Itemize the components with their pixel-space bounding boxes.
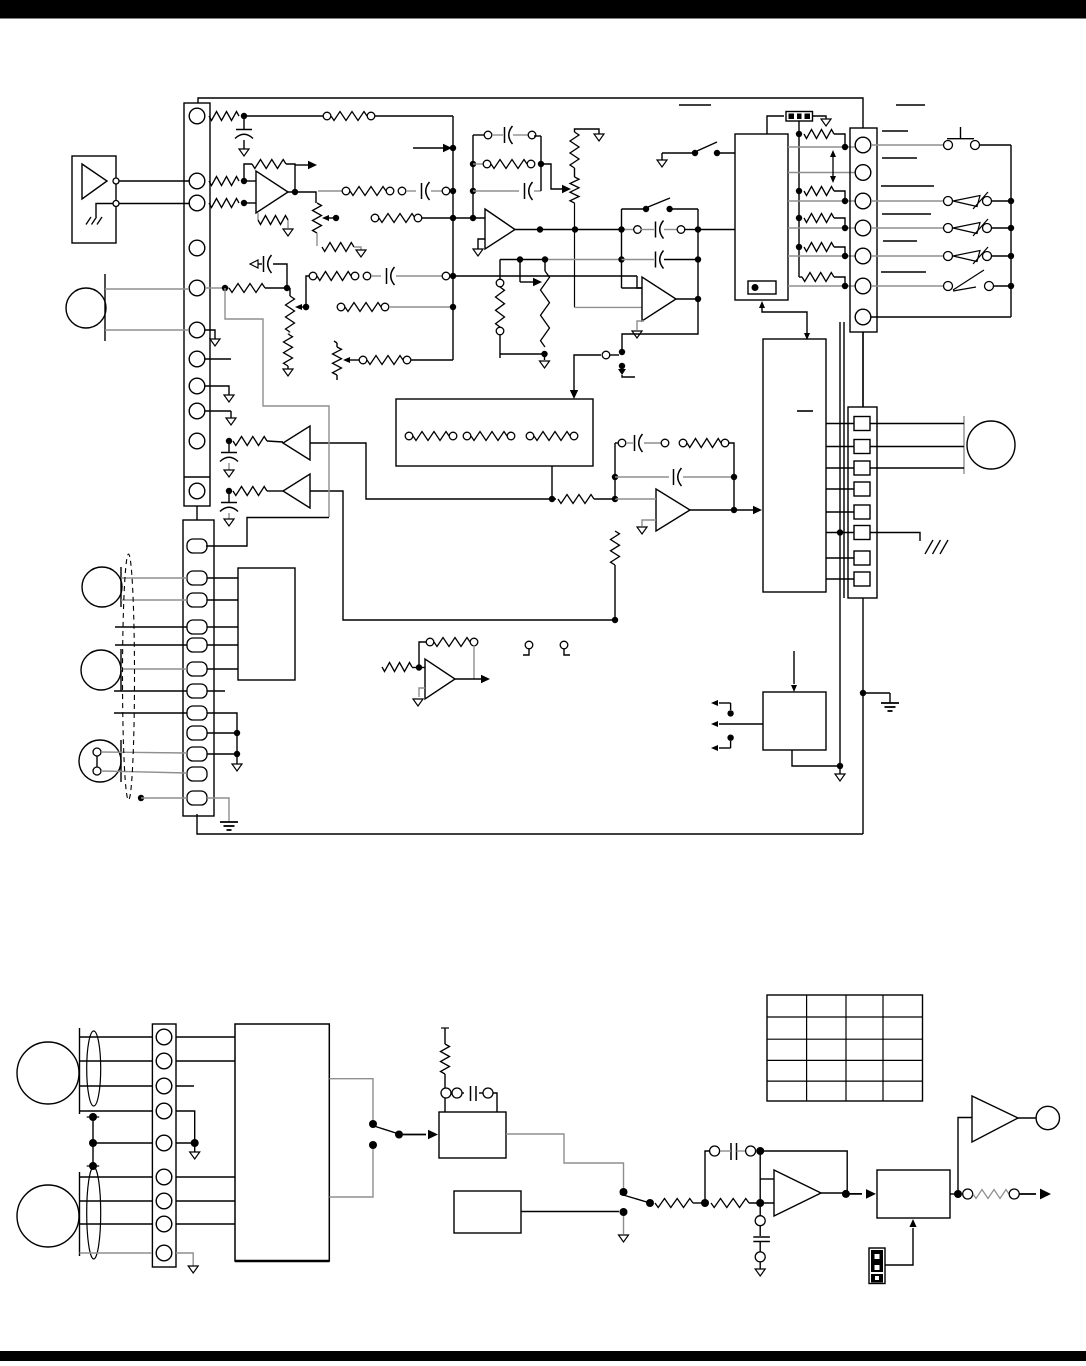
wire U2 out [690,509,734,511]
wire J3 pin1 [871,144,944,146]
wire row276 right [453,275,637,277]
headphone out [1036,1106,1059,1129]
wire U3 to router box [698,229,735,231]
line-driver triangle [82,164,107,199]
earth ground right [881,703,899,711]
push switch S1 [944,127,980,150]
node [756,1199,764,1207]
node sw b [666,206,672,212]
capacitor C5 [505,126,513,144]
wire schematic border right lower [862,598,864,834]
wire J2 pin754 [207,753,237,755]
switch lever [697,142,717,151]
wire [493,1093,497,1112]
connector J5 body [152,1024,176,1267]
node [89,1139,97,1147]
wire J1 pin6 stub [205,330,215,339]
terminal [398,187,406,195]
terminal [403,356,411,364]
line-driver box [72,156,116,243]
ladder rail [798,121,800,277]
wire U8 to J4 [826,446,854,448]
connector J3 pin 7 [855,309,871,325]
wire row 645 [115,644,187,646]
terminal [426,638,434,646]
line-driver pin hot [113,178,119,184]
resistor R16 [413,432,449,441]
SPK1 face [79,1028,81,1114]
node y229 a [537,226,543,232]
connector J4 pin 1 [854,417,870,431]
level box U14 [877,1170,950,1218]
node [842,198,848,204]
ground below C9 [224,470,234,477]
amplifier box U10 [235,1024,329,1261]
wire [834,247,845,256]
resistor R31 [441,1028,450,1074]
U3 fb rail right [697,209,699,299]
terminal [1009,1189,1019,1199]
terminal [496,279,504,287]
terminal [342,187,350,195]
node [369,1120,377,1128]
wire [799,276,802,278]
connector J5 pin 8 [156,1216,172,1232]
wire to EQ row [318,190,343,192]
wire wiper2 up [306,276,310,307]
wire row F [788,285,855,287]
reference arrow into bus A [413,144,452,152]
buffer U4 [283,426,310,460]
wire row C [788,200,855,202]
connector J2 pin 12 [187,791,207,805]
wire [720,1150,745,1152]
meter arrow [830,150,836,183]
ground VR4 [594,134,604,141]
wire EQ mid row [473,190,519,192]
MIC1 connector face [104,274,106,341]
node [618,226,624,232]
node [731,474,737,480]
potentiometer VR4 bottom [570,177,579,203]
wire VR4 drop [575,203,643,307]
ground J5 shield [188,1266,198,1273]
wire U8 to J4 [826,511,854,513]
connector J2 pin 2 [187,571,207,585]
wire fb down [473,645,475,679]
table row line [767,1059,923,1061]
node B2 [284,285,290,291]
wire J2 to remote box [207,626,238,628]
node [796,215,802,221]
VR1 wiper arrow [322,215,336,221]
resistor R25 [434,638,470,647]
slide switch S3 [944,219,992,236]
node bus A y276 [450,273,456,279]
switch SW6 lever [374,1126,399,1134]
connector J3 pin 1 [855,137,871,153]
shield tick 2 [87,1165,100,1167]
terminal [570,432,578,440]
resistor R9 [322,243,354,252]
wire U3 out down [622,299,698,352]
wire schematic border bottom [197,814,863,834]
router box U7 [735,134,788,300]
capacitor C11 [635,434,643,452]
connector J4 pin 7 [854,551,870,565]
wire [371,275,381,277]
shield link [92,1117,94,1166]
wire [717,152,735,154]
connector J3 pin 2 [855,165,871,181]
node [692,150,698,156]
wire VR2 top [289,288,291,296]
wire jack b [870,446,964,448]
arrow into U14 [909,1219,916,1227]
U13 input link [760,1151,774,1203]
resistor R8 [379,214,415,223]
table row line [767,1080,923,1082]
terminal link b [560,641,570,655]
wire chain to VR3 bottom [500,353,545,355]
wire J1 pin7 stub [205,358,231,360]
terminal [337,303,345,311]
wire J1 pin8 stub [205,386,229,395]
selector box U8 [763,339,826,592]
potentiometer VR2 [286,296,295,332]
wire J4 pin6 chassis [870,533,920,542]
connector J4 body [848,407,877,598]
connector J1 divider [184,476,210,478]
wire [444,1074,446,1112]
wire out to U14 [846,1189,876,1199]
terminal [449,432,457,440]
connector J1 pin 11 [189,483,205,499]
connector J2 body [183,520,214,816]
wire chain bottom [499,335,501,358]
wire VR4 mid [574,168,576,177]
terminal [441,1088,451,1098]
node A1 [241,113,247,119]
wire insert jack [574,355,601,391]
wire A1 to bus [244,115,323,117]
wire earth right [863,693,890,703]
wire U8 to J4 [826,423,854,425]
node [646,1199,654,1207]
ground J5 [190,1143,200,1159]
node [714,150,720,156]
cable ellipse 1 [87,1031,101,1106]
wire MIC2 b [121,599,187,601]
wire [267,441,283,442]
table column line [845,995,847,1101]
wire [641,229,654,231]
wire [431,190,442,192]
terminal [679,439,687,447]
wire schematic border right upper [862,332,864,407]
connector J1 pin 3 [189,195,205,211]
node [1008,225,1014,231]
wire [236,733,238,754]
lever switch S5 [944,270,994,291]
microphone MIC2 [82,567,122,607]
node [226,438,232,444]
node U14 out [954,1190,962,1198]
ground below C1 [239,149,249,156]
bus V2 [843,322,845,598]
supply arrow 2 [711,721,763,727]
node bus A y191 [450,188,456,194]
slide switch S4 [944,247,992,264]
capacitor C8 [656,251,664,269]
terminal [618,439,626,447]
MIC3 face [120,649,122,691]
label dash [882,213,931,215]
wire fb to out [760,1151,847,1194]
node [796,131,802,137]
node [395,1131,403,1139]
wire [534,190,541,192]
wire row A [788,146,855,148]
wire VR4 to ground [575,129,600,134]
wire fb right [729,443,734,510]
wire J5 pin5 [176,1142,195,1144]
fuse icon [786,112,813,122]
wire MIC2 a [121,577,187,579]
wire U4 out [310,443,556,499]
buffer U5 [283,474,310,508]
connector J1 body [184,103,210,506]
wire [684,229,698,231]
microphone MIC3 [81,650,121,690]
wire U3 output [676,298,698,300]
terminal [363,272,371,280]
wire jack a [870,423,964,425]
remote box [238,568,295,680]
U6 fb up [419,642,426,668]
wire J2 pin713 [207,713,237,733]
wire XLR a [101,752,187,753]
node [796,244,802,250]
wire [693,1202,705,1204]
terminal [526,432,534,440]
wire [622,259,655,261]
ground J1 pin6 [210,339,220,346]
ground below U3 [632,331,642,338]
wire EQ corner [534,135,541,137]
speaker SPK2 [17,1185,79,1247]
node bus A y148 [450,145,456,151]
resistor R21 [558,495,594,504]
power box U9 [763,692,826,750]
node y260 b [542,256,548,262]
wire J2 to remote box [207,599,238,601]
resistor R24 [382,663,412,672]
connector J3 pin 5 [855,248,871,264]
connector J2 pin 9 [187,726,207,740]
node [416,664,422,670]
wire U10 out A [329,1079,373,1120]
capacitor C2 [422,182,430,200]
resistor R3 [209,177,239,186]
wire MIC1 hot [105,288,189,290]
terminal [746,1146,756,1156]
terminal [442,272,450,280]
node bus B y164 [470,161,476,167]
connector J1 pin 2 [189,173,205,189]
op-amp U2 [656,489,690,531]
wire [683,476,734,478]
label dash [883,240,917,242]
node [860,690,866,696]
jumper table [767,995,923,1101]
potentiometer VR4 top [570,132,579,168]
wire [834,218,845,228]
capacitor C12 [674,468,682,486]
wire MIC3 a [121,668,187,670]
wire [451,1092,464,1094]
terminal [386,187,394,195]
terminal [452,1088,462,1098]
bypass box U12 [454,1191,521,1233]
capacitor C10 to ground [220,491,238,519]
terminal [721,439,729,447]
router input switch [657,153,692,167]
node sw a [643,206,649,212]
line-driver pin cold [113,201,119,207]
ground below C15 [755,1269,765,1276]
ground below R6 [283,229,293,236]
connector J1 pin 9 [189,403,205,419]
wire row D [788,227,855,229]
connector J3 pin 4 [855,220,871,236]
connector J5 pin 3 [156,1078,172,1094]
connector J5 pin 4 [156,1103,172,1119]
U10 bottom edge [235,1260,329,1263]
node wiper2 row [303,304,309,310]
connector J1 pin 6 [189,322,205,338]
node y260 a [517,256,523,262]
terminal [483,160,491,168]
connector J5 pin 1 [156,1029,172,1045]
resistor R27 [804,187,834,196]
ground below R11 [283,366,293,376]
wiper drop VR3 [520,260,542,287]
wire J5 to U10 [176,1223,235,1225]
wire hot to J1 pin2 [119,180,189,182]
ground below U2 [637,527,647,534]
wire U6 out [455,675,490,683]
op-amp U13 [774,1170,821,1216]
wire SPK2 shield [80,1252,153,1254]
wire [670,208,698,210]
wire row 713 [114,712,187,714]
connector J2 pin 7 [187,684,207,698]
wire R35 to bus A [411,359,453,361]
wire [834,134,845,147]
ground SW7 [619,1216,629,1242]
wire [513,134,528,136]
wire row307 [389,306,453,308]
node bus B y218 [470,215,476,221]
wire J3 row 201 [871,200,943,202]
node [842,225,848,231]
connector J2 pin 11 [187,767,207,781]
resistor R14 [491,160,527,169]
terminal [381,303,389,311]
wire cold to J1 pin3 [119,203,189,205]
wire main row y260 right [545,259,622,261]
connector J1 pin 7 [189,351,205,367]
wire J3 pin7 [871,316,1011,318]
wire SW6 common [403,1130,438,1140]
connector J5 pin 5 [156,1135,172,1151]
VR5 wiper arrow [343,357,359,363]
aux connector XLR [79,740,121,782]
wire J3 row 228 [871,227,943,229]
wire main row y260 left [500,259,545,261]
wire cold to chassis [96,204,113,218]
router status cell [748,281,776,294]
node bus A y307 [450,304,456,310]
wire to selector [734,506,762,514]
node [234,751,240,757]
op-amp U1 [256,171,288,213]
terminal [661,439,669,447]
ground J1 pin9 [226,418,236,425]
node U1 output [292,189,298,195]
node [837,763,843,769]
terminal [470,638,478,646]
wire SPK2 row [80,1176,153,1178]
wire [406,190,416,192]
connector J5 pin 2 [156,1053,172,1069]
U2 fb rail [614,443,616,499]
resistor R19 [233,437,267,446]
bypass switch lever [648,198,670,207]
bus V1 [839,322,841,766]
wire J3 row 256 [871,255,943,257]
resistor R11 lower [284,334,293,366]
wire J5 to U10 [176,1036,235,1038]
resistor R1 [209,112,239,121]
wire J5 pin3 stub [176,1085,194,1087]
connector J3 pin 6 [855,278,871,294]
MIC2 face [120,567,122,607]
label dash [881,185,934,187]
capacitor C14 [731,1143,737,1160]
resistor R6 to ground [258,213,288,228]
speaker SPK1 [17,1042,79,1104]
terminal [463,432,471,440]
arrow into attenuator box [570,390,578,399]
capacitor C13 [471,1086,477,1101]
wire JP1 to U14 [885,1228,913,1265]
wire [412,667,425,669]
wire MIC1 return [105,329,189,331]
resistor R22 [687,439,721,448]
VR2 wiper arrow [295,304,306,310]
compressor box U11 [439,1112,506,1158]
connector J4 pin 6 [854,526,870,540]
node [89,1162,97,1170]
wire row E [788,255,855,257]
wire [749,1202,774,1204]
resistor R10 [229,284,265,293]
node [1008,198,1014,204]
table row line [767,1016,923,1018]
node [549,496,555,502]
